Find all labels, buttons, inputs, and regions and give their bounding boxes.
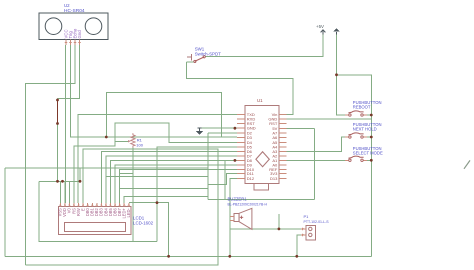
- svg-text:NEXT HOLD: NEXT HOLD: [353, 126, 377, 131]
- wire ladder LED+ to 5V rail: [124, 196, 208, 203]
- wire sensor Trig down then right to Arduino D3: [71, 45, 238, 137]
- wire switch to Arduino Vin: [186, 62, 293, 114]
- op-amp U1 Arduino Nano body: [245, 106, 279, 184]
- sensor pin Echo stub: [74, 39, 77, 45]
- wire left vertical rail: [5, 168, 208, 256]
- wire PTT pin2 to bus: [297, 235, 301, 256]
- junction bus PTT: [295, 255, 298, 258]
- wire sensor Echo down, left, down long rail: [25, 45, 75, 265]
- sensor pin Trig stub: [69, 39, 72, 45]
- wire x38 riser and row y241: [39, 181, 157, 241]
- svg-text:SELECT MODE: SELECT MODE: [353, 150, 383, 155]
- junction D5 rail x LED- row: [156, 201, 159, 204]
- junction LCD row 2: [61, 180, 64, 183]
- wire switch out to +5V: [206, 35, 324, 57]
- junction gnd-net A: [56, 99, 59, 102]
- wire D10 to DB7: [120, 170, 237, 204]
- junction buzzer-PTT row: [278, 228, 281, 231]
- junction LCD row 3: [79, 180, 82, 183]
- junction VCC branch: [335, 73, 338, 76]
- junction gnd-net B: [56, 122, 59, 125]
- wire ladder rung DB4 to 5V rail: [106, 175, 208, 177]
- power flag VCC arrow: [333, 28, 340, 34]
- wire D12 to buzzer rail: [230, 178, 237, 256]
- svg-text:BUZZER1: BUZZER1: [228, 196, 248, 201]
- wire VCC down to pushbutton REBOOT: [337, 32, 345, 115]
- U1 usb connector rect: [254, 184, 269, 191]
- power flag +5V: [316, 24, 325, 35]
- connector P1 PTT: [301, 225, 316, 240]
- wire sensor Gnd down then left: [58, 45, 80, 99]
- wire bridge hop over at y92: [106, 93, 221, 137]
- wire LCD RS with bypass hop to Arduino D4: [74, 123, 237, 203]
- wire right vcc bus: [337, 75, 372, 256]
- wire LCD feed row y181: [39, 168, 80, 181]
- junction bus SELECT: [370, 159, 373, 162]
- wire dark net segment: [57, 98, 59, 123]
- svg-text:Switch-SPDT: Switch-SPDT: [195, 52, 221, 57]
- junction bus LED-: [167, 255, 170, 258]
- pushbutton SELECT MODE: [345, 156, 367, 161]
- wire D7 to DB4: [106, 156, 237, 203]
- U1 right pin names: [268, 112, 278, 181]
- wire bottom second rail to E net: [25, 149, 218, 265]
- switch SW1 SPDT: [187, 54, 205, 63]
- svg-text:BL-PBZ1209C20021YB-H: BL-PBZ1209C20021YB-H: [228, 203, 268, 207]
- junction LCD row 1: [56, 180, 59, 183]
- wire rail rung: [224, 160, 226, 199]
- U1 diamond mark: [256, 152, 269, 167]
- wire sensor VCC down to LCD VDD: [64, 45, 66, 203]
- svg-text:+5V: +5V: [316, 24, 324, 29]
- svg-text:U2: U2: [64, 3, 70, 8]
- svg-text:100: 100: [136, 143, 143, 148]
- junction D8 pin: [234, 159, 237, 162]
- wire D8 to DB5: [111, 160, 238, 203]
- svg-text:REBOOT: REBOOT: [353, 105, 371, 110]
- junction D3 net: [105, 136, 108, 139]
- svg-text:PTT-102-01-L-S: PTT-102-01-L-S: [304, 220, 330, 224]
- LCD1 LCD-1602 body: [58, 207, 131, 235]
- wire D5 drop rail: [157, 147, 237, 242]
- LCD pin names vertical: [58, 207, 132, 218]
- wire DB7 branch to R1 rail: [120, 173, 133, 175]
- wire Arduino D2 to rail: [208, 132, 237, 134]
- sensor pin Gnd stub: [78, 39, 81, 45]
- wire LCD V0: [68, 181, 70, 203]
- svg-text:U1: U1: [257, 98, 263, 103]
- wire LCD R/W up to TXD row: [78, 115, 237, 204]
- ground symbol: [196, 128, 203, 135]
- wire gnd rail to LCD row: [57, 124, 59, 182]
- junction bus buzzer rail: [228, 255, 231, 258]
- svg-text:D13: D13: [270, 176, 278, 181]
- svg-text:P1: P1: [304, 214, 310, 219]
- wire Arduino GND right to bus: [287, 118, 372, 120]
- wire R1 bottom drop: [132, 148, 134, 242]
- wire 5V rail riser: [208, 128, 315, 199]
- wire into R1 arrow: [115, 140, 128, 142]
- wire D11 jog to 5V rail: [208, 174, 237, 185]
- buzzer BUZZER1: [230, 208, 252, 229]
- svg-text:D12: D12: [247, 176, 255, 181]
- wire pushbutton right sides to bus: [367, 115, 372, 160]
- LCD pin arrows: [59, 204, 130, 206]
- U1 left pin stubs: [237, 115, 245, 179]
- wire A1 to pushbutton SELECT: [287, 159, 345, 161]
- svg-text:HC-SR04: HC-SR04: [64, 8, 85, 14]
- svg-text:Gnd: Gnd: [77, 30, 82, 39]
- junction bus REBOOT: [370, 114, 373, 117]
- wire bottom ground bus: [5, 255, 371, 257]
- U1 left pin names: [247, 112, 256, 181]
- wire LED- row to bus: [129, 203, 169, 257]
- wire ladder rung DB7 to 5V rail: [120, 187, 208, 189]
- wire D6 to DB3: [101, 152, 237, 204]
- wire D9 to DB6: [115, 165, 237, 203]
- pushbutton REBOOT: [345, 111, 367, 116]
- svg-text:LED-: LED-: [126, 208, 131, 218]
- wire LCD VDD riser: [64, 181, 66, 203]
- pushbutton NEXT HOLD: [345, 133, 367, 138]
- junction GND pin: [234, 127, 237, 130]
- wire A3 to pushbutton NEXT: [287, 137, 345, 152]
- svg-text:LCD-1602: LCD-1602: [133, 220, 154, 225]
- wire ground symbol to Arduino GND: [200, 127, 238, 129]
- LCD display window: [65, 222, 126, 231]
- wire buzzer row to PTT pin1: [230, 228, 301, 230]
- wire PTT riser stub: [278, 214, 280, 229]
- U1 right pin stubs: [279, 114, 287, 178]
- LCD pin stubs row: [60, 203, 129, 207]
- ultrasonic sensor U2 HC-SR04 body: [39, 13, 108, 39]
- wire LCD VSS: [59, 181, 61, 203]
- sensor pin VCC stub: [65, 39, 68, 45]
- unconnected diagonal wire stub: [464, 160, 470, 168]
- junction bus NEXT: [370, 136, 373, 139]
- resistor R1: [128, 133, 135, 147]
